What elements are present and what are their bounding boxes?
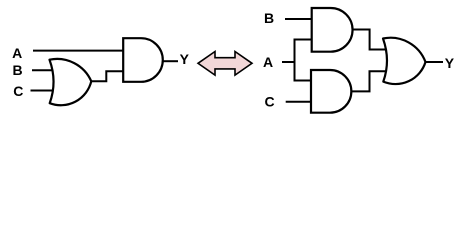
and-gate U3 (right top AND, inputs B,A)	[312, 8, 353, 52]
wire A vertical bus	[294, 40, 296, 81]
svg-text:Y: Y	[180, 51, 190, 67]
wire C into AND U4	[286, 101, 312, 103]
wire bus to AND U4 upper input	[294, 80, 312, 82]
wire bus to AND U3 lower input	[294, 39, 313, 41]
svg-text:Y: Y	[445, 55, 455, 71]
wire OR U2 output step to AND U1	[91, 71, 124, 81]
wire AND U3 output step to OR U5	[353, 30, 390, 50]
wire B into OR U2	[32, 69, 55, 71]
wire AND U1 output	[163, 60, 178, 62]
svg-text:C: C	[264, 93, 274, 109]
and-gate U1 (left AND, output Y)	[123, 38, 163, 82]
equivalence double arrow	[198, 52, 252, 76]
svg-text:B: B	[264, 10, 274, 26]
svg-text:A: A	[12, 45, 22, 61]
wire C into OR U2	[31, 90, 56, 92]
wire B into AND U3	[285, 18, 312, 20]
wire A to AND U1	[33, 50, 124, 52]
wire AND U4 output step to OR U5	[352, 71, 390, 91]
svg-text:B: B	[13, 62, 23, 78]
svg-text:A: A	[263, 54, 273, 70]
or-gate U2 (left OR, inputs B,C)	[50, 59, 92, 105]
or-gate U5 (right OR, output Y)	[383, 38, 426, 84]
svg-text:C: C	[13, 83, 23, 99]
and-gate U4 (right bottom AND, inputs A,C)	[311, 70, 351, 113]
wire A stub to bus	[282, 61, 295, 63]
wire OR U5 output	[426, 61, 444, 63]
